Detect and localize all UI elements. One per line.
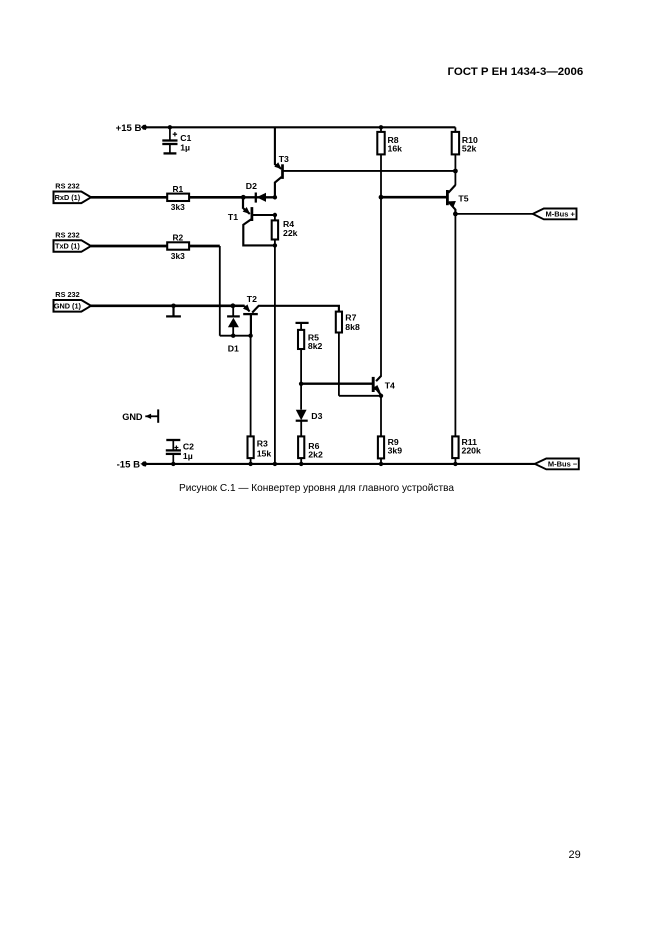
svg-text:T4: T4 bbox=[385, 380, 395, 390]
svg-text:TxD (1): TxD (1) bbox=[55, 242, 80, 251]
svg-text:T5: T5 bbox=[458, 193, 468, 203]
page number bbox=[569, 849, 581, 861]
transistor T2 bbox=[233, 294, 339, 336]
node R3 at -15 rail bbox=[248, 462, 252, 466]
resistor R5 8k2 bbox=[296, 323, 323, 384]
resistor R6 2k2 bbox=[298, 436, 323, 464]
capacitor C2 1µ bbox=[166, 440, 194, 464]
svg-text:RxD (1): RxD (1) bbox=[55, 193, 81, 202]
svg-text:D2: D2 bbox=[246, 181, 257, 191]
svg-text:16k: 16k bbox=[388, 143, 403, 153]
transistor T3 bbox=[274, 127, 289, 197]
svg-text:8k2: 8k2 bbox=[308, 341, 323, 351]
node C2 at -15 rail bbox=[171, 462, 175, 466]
wire T4 base bbox=[301, 383, 373, 385]
svg-text:2k2: 2k2 bbox=[308, 449, 323, 459]
node R6 at -15 rail bbox=[299, 462, 303, 466]
diode D1 bbox=[227, 306, 240, 354]
node A junction (R1/D2/T1) bbox=[241, 195, 246, 200]
svg-text:R3: R3 bbox=[257, 439, 268, 449]
node R9 at -15 rail bbox=[379, 462, 383, 466]
svg-text:T2: T2 bbox=[247, 294, 257, 304]
svg-text:GND (1): GND (1) bbox=[54, 301, 82, 310]
resistor R3 15k bbox=[248, 436, 272, 464]
wire +15 V top rail bbox=[144, 126, 456, 128]
node D1/T2 emitter junction bbox=[231, 303, 236, 308]
wire R10 to T5 bbox=[454, 154, 456, 185]
svg-text:T1: T1 bbox=[228, 212, 238, 222]
svg-text:15k: 15k bbox=[257, 448, 272, 458]
transistor T4 bbox=[373, 376, 395, 395]
svg-text:RS 232: RS 232 bbox=[55, 182, 79, 191]
node T4 emitter junction bbox=[379, 394, 383, 398]
wire GND to D1 node bbox=[91, 304, 233, 307]
connector M-Bus− bbox=[535, 459, 579, 470]
svg-text:1µ: 1µ bbox=[183, 451, 193, 461]
svg-text:8k8: 8k8 bbox=[345, 322, 360, 332]
wire TxD to R2 bbox=[91, 245, 167, 248]
svg-text:1µ: 1µ bbox=[180, 142, 190, 152]
node R5/D3/T4-base junction bbox=[299, 382, 303, 386]
capacitor C1 1µ bbox=[162, 125, 191, 153]
wire R2 to T2 base loop bbox=[189, 246, 251, 336]
svg-text:+15 В: +15 В bbox=[116, 123, 142, 134]
svg-text:RS 232: RS 232 bbox=[55, 290, 79, 299]
svg-text:RS 232: RS 232 bbox=[55, 230, 79, 239]
svg-text:52k: 52k bbox=[462, 143, 477, 153]
wire to M-Bus+ bbox=[455, 213, 532, 215]
wire R1 to node A bbox=[189, 196, 243, 199]
wire T3 base to R10 column bbox=[283, 170, 456, 172]
resistor R8 16k bbox=[377, 127, 402, 154]
wire R8 column down to T4 bbox=[380, 154, 382, 376]
svg-text:-15 В: -15 В bbox=[117, 460, 141, 471]
connector RS 232 RxD (1) bbox=[54, 182, 92, 204]
node R8 at +15 rail bbox=[379, 125, 383, 129]
svg-text:3k3: 3k3 bbox=[171, 202, 185, 212]
resistor R2 3k3 bbox=[167, 233, 189, 261]
svg-text:220k: 220k bbox=[462, 445, 481, 455]
svg-text:3k3: 3k3 bbox=[171, 251, 185, 261]
resistor R4 22k bbox=[272, 215, 298, 245]
transistor T5 bbox=[447, 185, 468, 214]
wire -15 V bottom rail bbox=[144, 463, 535, 465]
node D1/T2 base/R3 junction bbox=[231, 334, 253, 338]
svg-text:M-Bus +: M-Bus + bbox=[545, 209, 575, 218]
node R4 bottom junction bbox=[273, 243, 277, 247]
node T5 collector / M-Bus+ junction bbox=[453, 212, 458, 217]
wire T1 base bbox=[252, 214, 275, 216]
figure caption bbox=[179, 483, 454, 494]
resistor R9 3k9 bbox=[378, 436, 402, 458]
node -15 V terminal bbox=[117, 460, 147, 471]
wire T4 emitter to R9 bbox=[380, 396, 382, 437]
node T3 base wire at R10 column bbox=[453, 169, 458, 174]
svg-text:3k9: 3k9 bbox=[388, 445, 403, 455]
wire R11 to -15 rail bbox=[454, 458, 456, 464]
connector M-Bus+ bbox=[533, 209, 577, 220]
wire to T5 base bbox=[381, 196, 447, 199]
svg-text:M-Bus −: M-Bus − bbox=[548, 459, 578, 468]
resistor R11 220k bbox=[452, 436, 481, 458]
wire T2 base column to R3 bbox=[250, 336, 252, 437]
node middle column at -15 rail bbox=[273, 462, 277, 466]
terminal tick on GND wire bbox=[166, 304, 181, 317]
svg-text:D1: D1 bbox=[228, 343, 239, 353]
wire middle column R4 to -15 rail bbox=[274, 245, 276, 464]
node R4 top junction bbox=[273, 213, 277, 217]
connector RS 232 TxD (1) bbox=[54, 230, 92, 252]
node R11 at -15 rail bbox=[453, 462, 457, 466]
svg-text:R2: R2 bbox=[172, 233, 183, 243]
node D2/T3 junction bbox=[273, 195, 277, 199]
connector RS 232 GND (1) bbox=[54, 290, 92, 312]
diode D3 bbox=[296, 384, 323, 437]
resistor R7 8k8 bbox=[336, 312, 360, 396]
wire T5 to R11 bbox=[454, 214, 456, 437]
wire R9 to -15 rail bbox=[380, 458, 382, 464]
svg-text:D3: D3 bbox=[311, 411, 322, 421]
node +15 V terminal bbox=[116, 123, 147, 134]
transistor T1 bbox=[228, 197, 275, 245]
diode D2 bbox=[243, 181, 275, 203]
wire RxD to R1 bbox=[91, 196, 167, 199]
svg-text:R1: R1 bbox=[172, 184, 183, 194]
header: standard designation bbox=[448, 66, 584, 78]
svg-text:GND: GND bbox=[122, 412, 143, 422]
node R8 column / T5 base junction bbox=[379, 195, 384, 200]
ground GND terminal bbox=[122, 409, 158, 422]
svg-text:22k: 22k bbox=[283, 228, 298, 238]
resistor R10 52k bbox=[452, 127, 478, 154]
resistor R1 3k3 bbox=[167, 184, 189, 212]
svg-text:T3: T3 bbox=[279, 154, 289, 164]
wire R7 bottom to T4 emitter bbox=[339, 395, 381, 397]
